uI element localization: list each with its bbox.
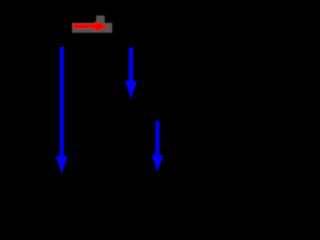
gray block tab (96, 16, 105, 23)
red force arrow (73, 21, 109, 31)
blue vector arrow middle (125, 48, 137, 100)
gray block bar (72, 23, 112, 33)
blue vector arrow right (152, 121, 164, 172)
blue vector arrow left (56, 47, 68, 174)
